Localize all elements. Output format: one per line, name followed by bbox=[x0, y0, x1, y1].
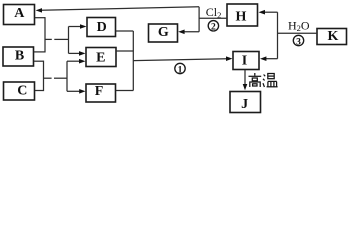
wire+arrow: into D bbox=[69, 26, 82, 28]
svg-text:2: 2 bbox=[211, 23, 216, 33]
wire: connector2 right segment bbox=[54, 77, 67, 79]
wire: E right stub bbox=[116, 50, 133, 52]
wire+arrow: upper into E bbox=[69, 52, 80, 54]
wire+arrow: into G bbox=[181, 31, 199, 33]
svg-text:1: 1 bbox=[178, 65, 183, 75]
wire+arrow: long arrow 1 to I bbox=[133, 59, 227, 61]
label gaowen (high temperature) CJK drawn bbox=[249, 73, 278, 87]
box J bbox=[230, 92, 261, 113]
box I bbox=[233, 52, 259, 70]
wire: bus3 vertical bbox=[132, 31, 134, 91]
wire+arrow: into I right bbox=[263, 58, 278, 60]
box K bbox=[317, 29, 347, 45]
svg-text:G: G bbox=[158, 25, 169, 40]
wire: connector1 right segment bbox=[54, 38, 68, 40]
wire: B lower stub bbox=[34, 60, 44, 62]
svg-text:I: I bbox=[242, 54, 247, 69]
label circled 1 bbox=[175, 63, 185, 73]
wire: C right stub bbox=[35, 90, 44, 92]
wen bbox=[263, 75, 265, 88]
svg-text:H: H bbox=[236, 9, 247, 24]
wire: bus2-upper vertical bbox=[68, 27, 70, 54]
wire: connector1 left segment bbox=[45, 38, 52, 40]
wire: bus2-lower vertical bbox=[66, 61, 68, 91]
svg-text:B: B bbox=[15, 48, 24, 63]
svg-text:F: F bbox=[95, 84, 104, 99]
box D bbox=[87, 18, 116, 37]
box A bbox=[4, 5, 35, 25]
svg-text:E: E bbox=[96, 51, 105, 66]
wire+arrow: lower into E bbox=[67, 60, 80, 62]
wire: bus1-lower vertical bbox=[43, 61, 45, 92]
wire: H2O bar from K left bbox=[278, 32, 318, 34]
box B bbox=[3, 47, 34, 66]
box F bbox=[86, 84, 116, 102]
box E bbox=[86, 48, 116, 67]
box C bbox=[4, 82, 35, 100]
wire+arrow: I down to J bbox=[244, 70, 246, 85]
svg-text:J: J bbox=[241, 97, 248, 112]
svg-text:A: A bbox=[14, 6, 25, 21]
wire: Cl2 bar from H left to junction bbox=[199, 17, 227, 19]
box H bbox=[227, 4, 258, 26]
wire: D right stub bbox=[116, 30, 134, 32]
wire+arrow: into F bbox=[67, 90, 80, 92]
wire: bus1-upper vertical bbox=[44, 17, 46, 52]
label circled 2 bbox=[208, 21, 218, 31]
svg-text:C: C bbox=[17, 84, 27, 99]
wire: long top line from junction to A bbox=[41, 7, 199, 10]
wire: B upper stub bbox=[34, 51, 45, 53]
gao bbox=[254, 73, 256, 76]
wire: connector2 left segment bbox=[44, 77, 52, 79]
svg-text:K: K bbox=[328, 29, 339, 44]
wire: junction vertical at x=198.8 bbox=[198, 7, 200, 32]
svg-text:D: D bbox=[97, 20, 107, 35]
wire: vertical branch x=277.5 bbox=[277, 12, 279, 59]
svg-text:3: 3 bbox=[296, 37, 301, 47]
box G bbox=[149, 24, 178, 42]
label circled 3 bbox=[293, 35, 303, 45]
wire: F right stub bbox=[116, 90, 134, 92]
wire: A right stub to bus1-upper bbox=[35, 17, 45, 19]
wire+arrow: into H right bbox=[262, 11, 278, 13]
